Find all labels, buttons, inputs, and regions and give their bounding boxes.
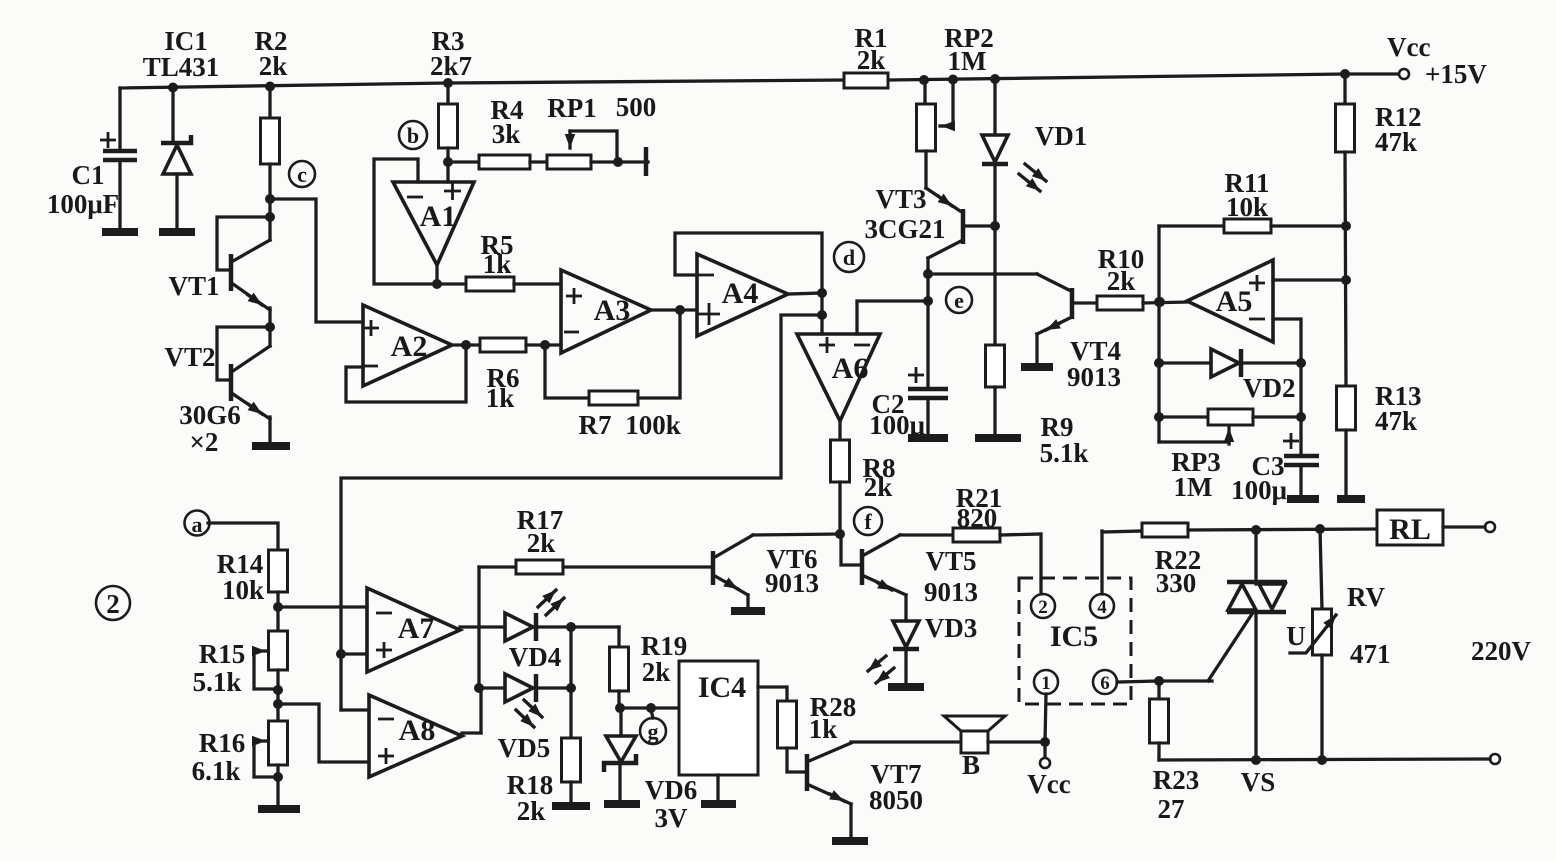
svg-text:6: 6: [1100, 673, 1110, 694]
svg-text:A7: A7: [398, 612, 435, 645]
svg-text:U: U: [1286, 621, 1306, 651]
svg-text:A4: A4: [722, 277, 759, 310]
svg-text:100μ: 100μ: [1231, 475, 1287, 505]
svg-text:100μF: 100μF: [47, 189, 119, 219]
svg-text:g: g: [648, 719, 659, 744]
svg-text:2: 2: [106, 589, 120, 619]
svg-text:b: b: [407, 123, 419, 148]
svg-text:VT5: VT5: [925, 546, 976, 576]
svg-text:2k: 2k: [259, 51, 288, 81]
svg-text:B: B: [962, 750, 980, 780]
svg-text:VS: VS: [1241, 767, 1276, 797]
svg-text:A8: A8: [399, 714, 436, 747]
svg-text:47k: 47k: [1375, 127, 1417, 157]
svg-text:5.1k: 5.1k: [193, 667, 242, 697]
svg-text:27: 27: [1158, 794, 1185, 824]
svg-text:A2: A2: [391, 330, 428, 363]
svg-text:IC4: IC4: [698, 671, 746, 704]
svg-text:VD2: VD2: [1243, 373, 1296, 403]
svg-text:VD3: VD3: [925, 613, 978, 643]
svg-text:IC5: IC5: [1050, 620, 1098, 653]
svg-text:4: 4: [1097, 597, 1107, 618]
svg-text:820: 820: [957, 503, 998, 533]
svg-text:500: 500: [616, 92, 657, 122]
svg-text:a: a: [192, 512, 203, 537]
svg-text:2k: 2k: [864, 472, 893, 502]
svg-text:1k: 1k: [809, 714, 838, 744]
svg-text:c: c: [297, 162, 307, 187]
svg-text:47k: 47k: [1375, 406, 1417, 436]
svg-text:Vcc: Vcc: [1387, 32, 1430, 62]
svg-text:Vcc: Vcc: [1027, 769, 1070, 799]
svg-text:A1: A1: [420, 200, 457, 233]
svg-text:10k: 10k: [1226, 192, 1268, 222]
svg-text:100k: 100k: [625, 410, 681, 440]
svg-text:9013: 9013: [924, 577, 978, 607]
svg-text:1M: 1M: [1174, 472, 1213, 502]
svg-text:R7: R7: [579, 410, 612, 440]
svg-text:100μ: 100μ: [869, 410, 925, 440]
svg-text:6.1k: 6.1k: [192, 756, 241, 786]
svg-text:30G6: 30G6: [179, 400, 241, 430]
svg-text:VT2: VT2: [164, 342, 215, 372]
svg-text:+15V: +15V: [1425, 59, 1487, 89]
svg-text:1: 1: [1041, 673, 1051, 694]
svg-text:VD1: VD1: [1035, 121, 1088, 151]
svg-text:330: 330: [1156, 568, 1197, 598]
svg-text:1k: 1k: [486, 383, 515, 413]
svg-text:471: 471: [1350, 639, 1391, 669]
svg-text:2k7: 2k7: [430, 51, 472, 81]
svg-text:2k: 2k: [517, 796, 546, 826]
svg-text:1k: 1k: [483, 249, 512, 279]
svg-text:3CG21: 3CG21: [865, 214, 946, 244]
svg-text:8050: 8050: [869, 785, 923, 815]
svg-text:TL431: TL431: [143, 52, 220, 82]
svg-text:10k: 10k: [222, 575, 264, 605]
svg-text:220V: 220V: [1471, 636, 1532, 666]
svg-text:2: 2: [1038, 597, 1048, 618]
svg-text:e: e: [954, 288, 964, 313]
svg-text:3k: 3k: [492, 119, 521, 149]
svg-text:2k: 2k: [1107, 266, 1136, 296]
svg-text:5.1k: 5.1k: [1040, 438, 1089, 468]
svg-text:2k: 2k: [527, 528, 556, 558]
svg-text:d: d: [843, 245, 855, 270]
svg-text:3V: 3V: [655, 803, 689, 833]
svg-text:RV: RV: [1347, 582, 1386, 612]
svg-text:R15: R15: [199, 639, 246, 669]
svg-text:1M: 1M: [948, 46, 987, 76]
svg-text:A5: A5: [1216, 285, 1253, 318]
svg-text:VT1: VT1: [168, 271, 219, 301]
svg-text:RP1: RP1: [547, 93, 597, 123]
svg-text:C1: C1: [72, 160, 105, 190]
svg-text:A3: A3: [594, 294, 631, 327]
svg-text:RL: RL: [1389, 513, 1431, 546]
svg-text:2k: 2k: [642, 657, 671, 687]
svg-text:R16: R16: [199, 728, 246, 758]
svg-text:VT3: VT3: [875, 184, 926, 214]
svg-text:f: f: [864, 509, 872, 534]
svg-text:A6: A6: [832, 352, 869, 385]
svg-text:9013: 9013: [765, 568, 819, 598]
svg-text:×2: ×2: [190, 427, 219, 457]
svg-text:VD5: VD5: [498, 733, 551, 763]
svg-text:R23: R23: [1153, 765, 1200, 795]
svg-text:9013: 9013: [1067, 362, 1121, 392]
svg-text:VD6: VD6: [645, 775, 698, 805]
svg-text:VD4: VD4: [509, 642, 562, 672]
svg-text:2k: 2k: [857, 45, 886, 75]
